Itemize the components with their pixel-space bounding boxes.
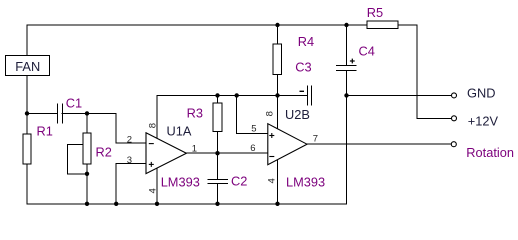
- resistor R3: [187, 103, 222, 132]
- wire U1A pin8 drop: [156, 95, 158, 138]
- wire U2B pin4 drop: [277, 160, 279, 204]
- resistor R4: [273, 34, 314, 75]
- svg-text:+12V: +12V: [468, 114, 499, 129]
- svg-text:5: 5: [251, 124, 256, 135]
- wire node B to R2 top: [86, 113, 88, 133]
- wire FAN top drop: [26, 25, 28, 56]
- junction rail U2B pin4: [275, 202, 279, 206]
- wire C2 bottom lead: [217, 183, 219, 204]
- svg-text:7: 7: [313, 133, 318, 144]
- junction rail R2: [85, 202, 89, 206]
- wire top rail to R5 left: [347, 24, 368, 26]
- svg-text:6: 6: [250, 143, 255, 154]
- capacitor C3 (polarized, minus left): [295, 60, 311, 106]
- capacitor C2: [208, 173, 248, 188]
- svg-text:Rotation: Rotation: [466, 145, 514, 160]
- wire R3 top lead: [217, 95, 219, 103]
- wire U1A output to U2B pin6: [186, 152, 267, 154]
- wire R2 bottom to ground rail: [86, 164, 88, 204]
- svg-text:4: 4: [267, 178, 278, 183]
- svg-text:4: 4: [148, 188, 159, 193]
- svg-text:FAN: FAN: [15, 59, 40, 74]
- junction node A (FAN/C1/R1): [25, 111, 29, 115]
- op-amp U1A: [127, 123, 200, 194]
- wire U1A pin3 to ground: [116, 164, 146, 204]
- junction rail C2: [215, 202, 219, 206]
- wire node A to C1 left: [27, 112, 58, 114]
- svg-text:C3: C3: [295, 60, 311, 75]
- junction output R3/C2: [215, 151, 219, 155]
- svg-text:R1: R1: [37, 124, 53, 139]
- wire C2 top lead: [217, 153, 219, 179]
- svg-text:U1A: U1A: [167, 124, 192, 139]
- svg-text:1: 1: [192, 143, 197, 154]
- svg-text:LM393: LM393: [161, 175, 200, 190]
- svg-text:R2: R2: [96, 145, 112, 160]
- wire GND horizontal: [347, 94, 452, 96]
- junction GND net C3/C4: [344, 93, 348, 97]
- svg-text:C4: C4: [359, 44, 375, 59]
- svg-text:LM393: LM393: [286, 175, 325, 190]
- junction V+ R4/pin8: [275, 93, 279, 97]
- terminal +12V: [452, 114, 499, 129]
- wire U2B output to Rotation: [307, 143, 451, 145]
- wire R5 right to corner: [398, 25, 452, 118]
- junction rail U1A pin4: [155, 202, 159, 206]
- svg-text:U2B: U2B: [285, 107, 310, 122]
- junction top rail R4: [275, 23, 279, 27]
- junction rail pin3: [114, 202, 118, 206]
- svg-text:8: 8: [265, 111, 276, 116]
- junction top rail C4/R5: [344, 23, 348, 27]
- svg-text:C1: C1: [66, 96, 82, 111]
- svg-text:GND: GND: [467, 85, 495, 100]
- svg-text:C2: C2: [231, 173, 247, 188]
- wire R3 bottom lead: [217, 132, 219, 154]
- svg-text:2: 2: [127, 134, 132, 145]
- wire C1 right to node B: [62, 112, 87, 114]
- wire ground rail: [27, 203, 347, 205]
- svg-text:8: 8: [147, 123, 158, 128]
- wire R4 bottom lead: [277, 74, 279, 95]
- junction R2 wiper/bottom: [85, 172, 89, 176]
- FAN box: [6, 56, 50, 76]
- resistor R5: [367, 5, 398, 28]
- capacitor C4 (polarized, plus top): [336, 44, 375, 71]
- wire V+ net horizontal: [157, 94, 307, 96]
- svg-text:3: 3: [127, 155, 132, 166]
- svg-text:R5: R5: [367, 5, 383, 20]
- wire R2 wiper bracket: [68, 144, 87, 173]
- junction V+ pin5: [235, 93, 239, 97]
- op-amp U2B: [250, 107, 325, 190]
- wire C4 top to top rail: [346, 25, 348, 65]
- svg-text:R3: R3: [187, 105, 203, 120]
- resistor R2 (with wiper tap): [83, 133, 112, 164]
- terminal GND: [452, 85, 496, 100]
- terminal Rotation: [451, 142, 514, 160]
- resistor R1: [23, 124, 53, 165]
- wire ground vertical right: [346, 95, 348, 203]
- wire U2B pin5 path: [237, 95, 268, 133]
- wire R1 bottom to ground rail: [26, 164, 28, 204]
- junction V+ R3: [215, 93, 219, 97]
- wire node B to U1A pin2: [87, 113, 146, 143]
- svg-text:R4: R4: [298, 34, 314, 49]
- wire FAN bottom to node A: [26, 76, 28, 135]
- wire R4 top lead: [277, 25, 279, 44]
- wire U1A pin4 drop: [156, 168, 158, 204]
- wire C4 bottom to ground node: [346, 70, 348, 95]
- junction node B (C1/R2/pin2): [85, 111, 89, 115]
- capacitor C1: [57, 96, 82, 124]
- wire top rail +12V(via R5): [27, 24, 347, 26]
- wire U2B pin8 drop: [277, 95, 279, 129]
